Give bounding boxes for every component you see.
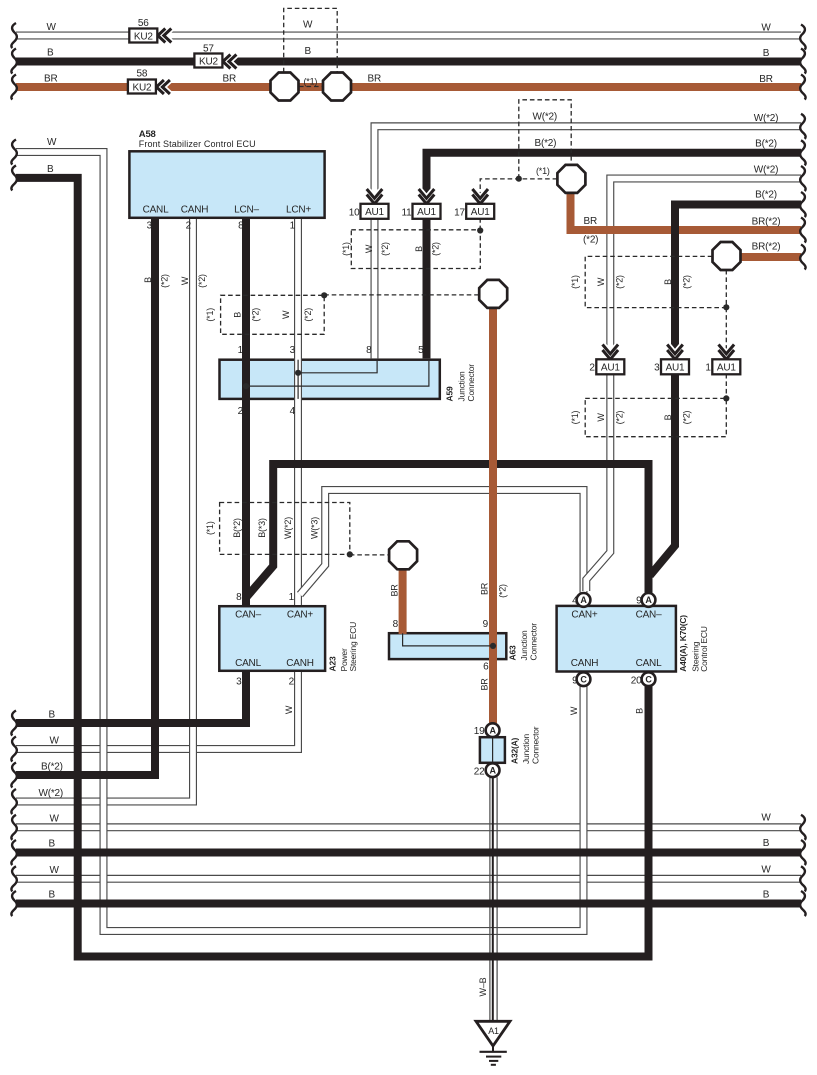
- svg-text:W(*2): W(*2): [754, 164, 779, 175]
- shield octagon 4: [713, 242, 741, 270]
- svg-text:4: 4: [290, 406, 296, 417]
- pin circle A40 4A: [577, 593, 591, 607]
- svg-text:(*1): (*1): [304, 76, 318, 86]
- chevron above AU1 1: [719, 345, 735, 360]
- svg-text:58: 58: [137, 69, 148, 80]
- svg-text:B: B: [763, 838, 770, 849]
- connector KU2 57: [194, 54, 222, 68]
- A23 pin names: [235, 610, 314, 669]
- svg-text:Junction: Junction: [519, 630, 529, 661]
- svg-text:2: 2: [589, 363, 595, 374]
- svg-text:W: W: [281, 310, 291, 319]
- shield octagon 2: [479, 280, 507, 308]
- svg-text:A: A: [580, 595, 587, 605]
- connector AU1 1: [712, 359, 740, 374]
- svg-text:(*2): (*2): [380, 242, 390, 256]
- svg-text:KU2: KU2: [132, 82, 151, 93]
- svg-text:AU1: AU1: [417, 207, 436, 218]
- svg-text:B: B: [49, 839, 56, 850]
- wire W frame left-bottom to A40 CANH: [16, 152, 584, 931]
- shield octagon B on BR bus: [323, 73, 351, 101]
- svg-text:KU2: KU2: [134, 31, 153, 42]
- ECU box A58 Front Stabilizer Control ECU: [129, 151, 324, 218]
- svg-text:Connector: Connector: [529, 623, 539, 661]
- pin circle A40 20C: [642, 672, 656, 686]
- wire B bus to A23 CANL: [16, 672, 246, 723]
- svg-text:A63: A63: [507, 645, 517, 660]
- svg-text:Steering ECU: Steering ECU: [348, 622, 358, 672]
- A58 pin numbers: [147, 221, 296, 232]
- svg-text:W: W: [47, 137, 57, 148]
- svg-text:Connector: Connector: [531, 726, 541, 764]
- wire W bus to A23 CANH: [16, 672, 298, 749]
- wire BR(*2) octagon4 right stub: [738, 253, 801, 261]
- svg-text:A: A: [489, 766, 496, 776]
- svg-text:W(*2): W(*2): [754, 113, 779, 124]
- dashed node dot box4: [723, 304, 729, 310]
- wire W(*2) bus to A58 CANH: [16, 219, 193, 802]
- svg-text:B(*3): B(*3): [257, 518, 267, 538]
- dashed shield box top-right: [519, 100, 571, 179]
- svg-text:CAN–: CAN–: [235, 610, 262, 621]
- svg-text:W(*2): W(*2): [533, 112, 558, 123]
- wire B(*2) right bus to AU1 11 to A59 pin5: [427, 153, 802, 359]
- svg-text:W: W: [180, 276, 190, 285]
- shield octagon A on BR bus: [271, 73, 299, 101]
- svg-text:B(*2): B(*2): [41, 762, 63, 773]
- svg-text:AU1: AU1: [717, 363, 736, 374]
- svg-text:LCN–: LCN–: [234, 205, 259, 216]
- ECU box A40(A) K70(C) Steering Control ECU: [557, 606, 676, 672]
- A63 pin numbers: [393, 619, 490, 673]
- svg-text:B(*2): B(*2): [535, 138, 557, 149]
- svg-text:CANL: CANL: [235, 658, 262, 669]
- dashed shield box top-left: [284, 8, 338, 72]
- svg-text:(*2): (*2): [682, 275, 692, 289]
- svg-text:6: 6: [483, 662, 489, 673]
- wire W(*2) right bus to AU1 10 to A59 pin8: [375, 126, 802, 358]
- svg-text:W: W: [569, 706, 579, 715]
- svg-text:CANH: CANH: [571, 658, 599, 669]
- wire W bottom bus 2: [16, 875, 801, 883]
- connector AU1 3: [661, 359, 689, 374]
- svg-text:1: 1: [289, 592, 295, 603]
- chevron above AU1 3: [667, 345, 683, 360]
- svg-text:W: W: [284, 705, 294, 714]
- svg-text:BR: BR: [480, 678, 490, 691]
- ECU box A59 Junction Connector: [220, 360, 440, 399]
- A23 pin numbers: [236, 592, 295, 688]
- svg-text:W: W: [364, 244, 374, 253]
- dashed node dot near octagon1: [516, 176, 522, 182]
- pin circle A40 9A: [642, 593, 656, 607]
- dashed node dot box1: [321, 292, 327, 298]
- wire W(*2) right bus2 to AU1 2 to A40 CAN+: [586, 179, 801, 592]
- svg-text:AU1: AU1: [666, 363, 685, 374]
- chevron above AU1 11: [419, 189, 435, 204]
- dashed label box5: [585, 398, 726, 436]
- dashed link box1 to octagon2: [324, 294, 479, 296]
- svg-text:19: 19: [474, 726, 485, 737]
- shield octagon 1: [557, 165, 585, 193]
- svg-text:3: 3: [290, 345, 296, 356]
- svg-text:22: 22: [474, 767, 485, 778]
- svg-text:(*2): (*2): [251, 308, 261, 322]
- svg-text:W(*2): W(*2): [283, 517, 293, 539]
- svg-text:8: 8: [238, 221, 244, 232]
- svg-text:(*2): (*2): [615, 410, 625, 424]
- connector AU1 11: [413, 204, 441, 219]
- ECU box A32(A) Junction Connector: [480, 737, 505, 763]
- svg-text:B: B: [47, 164, 54, 175]
- svg-text:W: W: [50, 814, 60, 825]
- svg-text:(*1): (*1): [536, 166, 550, 176]
- ECU box A63 Junction Connector: [389, 633, 506, 659]
- svg-text:Junction: Junction: [456, 371, 466, 402]
- svg-text:BR(*2): BR(*2): [752, 241, 781, 252]
- dashed link box4 to AU1 1: [725, 308, 727, 359]
- A40 pin names: [571, 610, 662, 669]
- wire B bottom bus 2: [16, 900, 801, 908]
- svg-text:(*2): (*2): [197, 274, 207, 288]
- wire W-B A32 to ground A1: [490, 777, 497, 1021]
- A32 pin numbers: [474, 726, 485, 778]
- svg-text:3: 3: [147, 221, 153, 232]
- svg-text:1: 1: [238, 345, 244, 356]
- svg-text:BR: BR: [390, 584, 400, 597]
- svg-text:BR: BR: [584, 216, 598, 227]
- svg-text:B: B: [143, 277, 153, 283]
- connector AU1 17: [466, 204, 494, 219]
- dashed label box3 A23 CAN wires: [220, 503, 350, 555]
- chevron right of KU2 57: [223, 55, 237, 69]
- svg-text:BR: BR: [480, 582, 490, 595]
- A58 pin names: [143, 205, 312, 216]
- svg-text:(*1): (*1): [205, 521, 215, 535]
- dashed label box4 right wires: [585, 256, 726, 307]
- svg-text:A: A: [489, 726, 496, 736]
- dashed label box1 LCN wires: [221, 295, 325, 334]
- svg-text:(*2): (*2): [160, 274, 170, 288]
- wire B bottom bus 1: [16, 849, 801, 857]
- svg-text:(*1): (*1): [205, 308, 215, 322]
- svg-text:B(*2): B(*2): [755, 189, 777, 200]
- svg-text:W: W: [761, 813, 771, 824]
- dashed link AU1 1 to box5: [725, 374, 727, 399]
- chevron right of KU2 58: [156, 80, 170, 94]
- svg-text:B(*2): B(*2): [232, 518, 242, 538]
- connector AU1 10: [361, 204, 389, 219]
- wire BR octagon3 to A63 pin8: [399, 566, 407, 634]
- wire B(*2) right bus2 to AU1 3 to A40 CAN-: [650, 205, 801, 576]
- A59 internal busbar pin5 to pin1: [246, 360, 429, 386]
- svg-text:Connector: Connector: [466, 364, 476, 402]
- dashed link box3 to octagon3: [350, 554, 389, 556]
- svg-text:8: 8: [366, 345, 372, 356]
- svg-text:B: B: [635, 708, 645, 714]
- A63 internal busbar pin8 to pin9: [403, 633, 493, 646]
- svg-text:CAN–: CAN–: [636, 610, 663, 621]
- shield octagon 3: [389, 541, 417, 569]
- chevron above AU1 17: [472, 189, 488, 204]
- svg-text:3: 3: [236, 677, 242, 688]
- svg-text:B: B: [305, 46, 312, 57]
- svg-text:CANL: CANL: [636, 658, 663, 669]
- svg-text:BR: BR: [223, 74, 237, 85]
- svg-text:5: 5: [418, 345, 424, 356]
- svg-text:CANL: CANL: [143, 205, 170, 216]
- svg-text:8: 8: [393, 619, 399, 630]
- wire B frame left to bottom to A40 CANL: [16, 178, 649, 957]
- svg-text:A32(A): A32(A): [510, 737, 520, 764]
- svg-text:W: W: [761, 23, 771, 34]
- svg-text:(*1): (*1): [570, 410, 580, 424]
- svg-text:W(*3): W(*3): [309, 517, 319, 539]
- svg-text:(*2): (*2): [430, 242, 440, 256]
- dashed node dot box5: [723, 395, 729, 401]
- svg-text:B: B: [763, 890, 770, 901]
- dashed link AU1 17 to box2: [479, 218, 481, 230]
- squiggle cable ends left: [11, 23, 16, 916]
- svg-text:KU2: KU2: [199, 56, 218, 67]
- svg-text:W: W: [50, 865, 60, 876]
- svg-text:B: B: [47, 48, 54, 59]
- svg-text:W: W: [303, 20, 313, 31]
- wire B(*2) A58 LCN- to A59 pin1 to A23 CAN-: [242, 219, 250, 605]
- svg-text:W: W: [47, 22, 57, 33]
- A32 internal line: [492, 737, 494, 763]
- ground symbol A1: [476, 1021, 510, 1065]
- A59 internal line pin3-4: [297, 360, 299, 399]
- svg-text:(*2): (*2): [583, 235, 598, 246]
- svg-text:BR: BR: [368, 74, 382, 85]
- dashed link octagon1 to AU1 17: [480, 179, 557, 205]
- wire W(*2) A58 LCN+ to A59 pin3 to A23 CAN+: [294, 219, 302, 605]
- wire BR top bus: [16, 83, 801, 91]
- svg-text:W: W: [761, 865, 771, 876]
- wire W(*3) A23 CAN+ to A40 CAN+: [300, 490, 584, 595]
- svg-text:W: W: [596, 413, 606, 422]
- svg-text:A1: A1: [488, 1026, 499, 1036]
- svg-text:56: 56: [138, 18, 149, 29]
- svg-text:1: 1: [705, 363, 711, 374]
- svg-text:W: W: [596, 277, 606, 286]
- rotated wire labels: [143, 242, 692, 997]
- svg-text:9: 9: [636, 596, 642, 607]
- dashed label box2 AU1 10-11 wires: [351, 230, 480, 269]
- svg-text:3: 3: [654, 363, 660, 374]
- svg-text:(*2): (*2): [498, 584, 508, 598]
- svg-text:(*1): (*1): [341, 242, 351, 256]
- svg-text:9: 9: [572, 676, 578, 687]
- A40 pin numbers: [572, 596, 642, 687]
- svg-text:Junction: Junction: [521, 733, 531, 764]
- svg-text:17: 17: [454, 208, 465, 219]
- svg-text:11: 11: [402, 208, 413, 219]
- wire BR octagon2 to A63 pin9 to A32 pin19: [489, 305, 497, 723]
- connector AU1 2: [596, 359, 624, 374]
- svg-text:4: 4: [572, 596, 578, 607]
- ECU box A23 Power Steering ECU: [219, 606, 325, 671]
- A63 junction dot: [490, 643, 496, 649]
- A59 junction dot pin3: [295, 370, 301, 376]
- svg-text:BR: BR: [759, 74, 773, 85]
- svg-text:AU1: AU1: [471, 207, 490, 218]
- pin circle A40 9C: [577, 672, 591, 686]
- svg-text:A59: A59: [445, 386, 455, 401]
- svg-text:AU1: AU1: [601, 363, 620, 374]
- svg-text:Front Stabilizer Control ECU: Front Stabilizer Control ECU: [139, 139, 256, 149]
- svg-text:A: A: [645, 595, 652, 605]
- svg-text:W–B: W–B: [478, 977, 488, 996]
- svg-text:CAN+: CAN+: [571, 610, 598, 621]
- svg-text:B: B: [663, 279, 673, 285]
- svg-text:C: C: [580, 675, 587, 685]
- svg-text:57: 57: [203, 44, 214, 55]
- svg-text:B: B: [49, 890, 56, 901]
- svg-text:A40(A), K70(C): A40(A), K70(C): [678, 615, 688, 672]
- svg-text:AU1: AU1: [365, 207, 384, 218]
- svg-text:CANH: CANH: [286, 658, 314, 669]
- dashed node dot box2: [477, 227, 483, 233]
- wire B top bus: [16, 58, 801, 66]
- svg-text:2: 2: [238, 406, 244, 417]
- svg-text:CANH: CANH: [181, 205, 209, 216]
- pin circle A32 22A: [486, 763, 500, 777]
- chevron above AU1 10: [367, 189, 383, 204]
- svg-text:10: 10: [349, 208, 360, 219]
- svg-text:1: 1: [290, 221, 296, 232]
- svg-text:B(*2): B(*2): [755, 139, 777, 150]
- A59 internal busbar pin8 to pin3: [298, 360, 377, 373]
- wire B(*2) bus to A58 CANL: [16, 219, 155, 775]
- svg-text:W: W: [50, 736, 60, 747]
- svg-text:9: 9: [483, 619, 489, 630]
- squiggle cable ends right: [800, 25, 805, 917]
- svg-text:LCN+: LCN+: [286, 205, 311, 216]
- svg-text:(*1): (*1): [570, 275, 580, 289]
- wire W bottom bus 1: [16, 823, 801, 831]
- svg-text:(*2): (*2): [682, 410, 692, 424]
- chevron above AU1 2: [603, 345, 619, 360]
- svg-text:(*2): (*2): [615, 275, 625, 289]
- svg-text:(*2): (*2): [303, 308, 313, 322]
- dashed node dot box3: [347, 551, 353, 557]
- svg-text:C: C: [645, 675, 652, 685]
- AU1 pin numbers: [349, 208, 712, 374]
- svg-text:8: 8: [236, 592, 242, 603]
- svg-text:W(*2): W(*2): [39, 788, 64, 799]
- svg-text:CAN+: CAN+: [287, 610, 314, 621]
- svg-text:Control ECU: Control ECU: [699, 626, 709, 672]
- connector KU2 58: [128, 80, 156, 94]
- svg-text:B: B: [233, 312, 243, 318]
- A59 pin numbers: [238, 345, 425, 417]
- svg-text:BR: BR: [44, 74, 58, 85]
- svg-text:2: 2: [289, 677, 295, 688]
- svg-text:B: B: [49, 710, 56, 721]
- wire BR(*2) octagon to right bus: [571, 190, 802, 230]
- chevron right of KU2 56: [158, 29, 172, 43]
- svg-text:B: B: [763, 48, 770, 59]
- pin circle A32 19A: [486, 723, 500, 737]
- wire W top bus: [16, 32, 801, 40]
- connector KU2 56: [129, 29, 157, 43]
- svg-text:A23: A23: [327, 656, 337, 671]
- wire B(*3) A23 CAN- to A40 CAN-: [247, 464, 649, 597]
- A59 junction dot pin1: [243, 383, 249, 389]
- svg-text:B: B: [663, 414, 673, 420]
- dashed link between octagons: [299, 86, 323, 88]
- svg-text:2: 2: [186, 221, 192, 232]
- svg-text:BR(*2): BR(*2): [752, 217, 781, 228]
- svg-text:20: 20: [631, 676, 642, 687]
- svg-text:B: B: [414, 246, 424, 252]
